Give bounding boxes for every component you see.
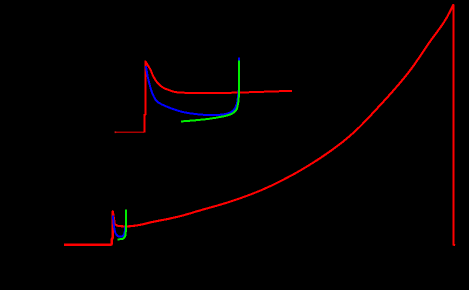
inset baseline (dim red), trace V resting segment	[115, 131, 144, 133]
main blue trace: decay after spike, upswing	[113, 216, 125, 237]
inset green trace: slow rise and vertical upswing	[181, 60, 239, 121]
inset red V trace: spike and decay	[144, 61, 292, 132]
inset blue trace: decay and vertical upswing	[146, 57, 239, 115]
main red V trace: baseline, spike, decay, slow rise, reset drop	[64, 5, 455, 245]
main green trace: slow rise and vertical upswing	[117, 209, 126, 239]
inset baseline start dot	[115, 131, 117, 133]
